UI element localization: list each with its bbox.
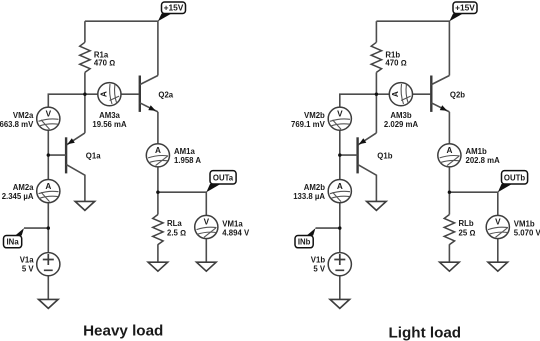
svg-text:AM1b: AM1b [466, 147, 487, 156]
svg-text:AM1a: AM1a [174, 147, 195, 156]
svg-text:470 Ω: 470 Ω [94, 59, 115, 68]
svg-text:133.8 µA: 133.8 µA [293, 192, 325, 201]
svg-text:RLb: RLb [459, 219, 474, 228]
svg-text:25 Ω: 25 Ω [459, 229, 476, 238]
svg-text:19.56 mA: 19.56 mA [92, 120, 127, 129]
svg-text:769.1 mV: 769.1 mV [291, 120, 326, 129]
svg-text:663.8 mV: 663.8 mV [0, 120, 34, 129]
svg-text:AM2a: AM2a [13, 183, 34, 192]
svg-text:2.345 µA: 2.345 µA [2, 192, 34, 201]
svg-text:OUTb: OUTb [504, 173, 525, 182]
svg-text:+15V: +15V [455, 3, 475, 13]
svg-text:Q1a: Q1a [86, 151, 101, 160]
svg-text:2.5 Ω: 2.5 Ω [167, 229, 186, 238]
svg-text:Q1b: Q1b [377, 151, 392, 160]
svg-text:VM2b: VM2b [304, 111, 325, 120]
svg-text:Q2b: Q2b [450, 90, 465, 99]
svg-text:470 Ω: 470 Ω [385, 59, 406, 68]
svg-text:VM1a: VM1a [222, 220, 243, 229]
svg-text:VM1b: VM1b [514, 220, 535, 229]
svg-text:VM2a: VM2a [13, 111, 34, 120]
svg-text:1.958 A: 1.958 A [174, 156, 201, 165]
svg-text:2.029 mA: 2.029 mA [384, 120, 419, 129]
svg-text:Light load: Light load [389, 324, 462, 341]
svg-text:5 V: 5 V [313, 265, 326, 274]
svg-text:OUTa: OUTa [213, 173, 234, 182]
svg-text:INa: INa [7, 238, 20, 247]
svg-text:AM3a: AM3a [99, 111, 120, 120]
svg-text:Q2a: Q2a [158, 90, 173, 99]
svg-text:V1a: V1a [20, 256, 35, 265]
svg-text:RLa: RLa [167, 219, 182, 228]
svg-text:5 V: 5 V [22, 265, 35, 274]
svg-text:202.8 mA: 202.8 mA [466, 156, 501, 165]
svg-text:Heavy load: Heavy load [83, 322, 163, 339]
svg-text:V1b: V1b [311, 256, 326, 265]
svg-text:INb: INb [298, 238, 311, 247]
svg-text:+15V: +15V [164, 3, 184, 13]
svg-text:AM3b: AM3b [390, 111, 411, 120]
svg-text:AM2b: AM2b [304, 183, 325, 192]
svg-text:4.894 V: 4.894 V [222, 229, 250, 238]
svg-text:5.070 V: 5.070 V [514, 229, 540, 238]
